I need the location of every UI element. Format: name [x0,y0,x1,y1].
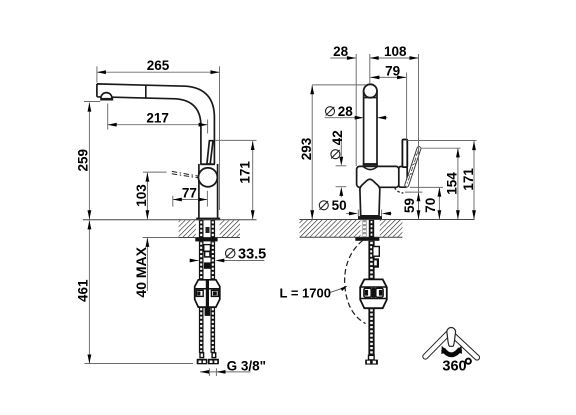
svg-text:40 MAX: 40 MAX [133,246,149,297]
right view: pull-out hose in counter [369,220,374,238]
svg-text:L = 1700: L = 1700 [280,285,331,300]
right view: tube end band [363,163,378,165]
right view: spout tube (front) [364,90,377,165]
dimension 59 [418,192,420,219]
dimension 171 right view [473,141,475,219]
right view: valve barrel body [357,166,399,187]
dimension 108 top [370,57,419,59]
360 icon: rotation arrow arc [443,349,460,355]
right view: hose end fitting [369,355,375,360]
svg-text:293: 293 [299,137,314,160]
countertop surface line (left view) [83,219,257,221]
right view: saddle curve [363,167,377,170]
dimension 103 [146,173,148,220]
left view: ball joint sphere [198,168,217,187]
360 icon: spray head knob [447,328,456,347]
right view: lever boss (vertical) [402,140,407,168]
dimension 293 [311,85,313,219]
dimension diameter 50 [346,213,351,215]
counter bottom extension line for 40 MAX [143,237,179,239]
right view: base plate (front) [358,216,382,219]
left view: faucet spout outline (side) [97,84,214,164]
right view: mounting nut under counter (front) [355,237,379,240]
svg-text:70: 70 [423,198,438,213]
svg-text:59: 59 [402,198,417,213]
right view: pull-out hose upper [368,241,374,279]
right view: lever phantom position (dashed) [404,146,421,187]
svg-text:79: 79 [385,63,400,78]
dimension 259 [88,103,90,220]
dimension diameter 28 [325,117,360,119]
countertop surface line (right view) [300,219,475,221]
right view: base column with dome top [360,179,380,216]
svg-text:28: 28 [338,104,354,119]
left view: pull-out hose dash-dot lines [172,171,199,176]
right view: tube chord line [364,97,377,99]
countertop hatched section (left view) [179,220,196,237]
dimension diameter 33.5 leader [222,260,264,262]
svg-text:360: 360 [442,359,466,375]
dimension 154 [457,148,459,219]
svg-text:103: 103 [134,184,149,207]
dimension 265 [97,71,220,73]
dimension 79 [370,76,406,78]
svg-text:108: 108 [384,44,407,59]
countertop hatched section (right view) [300,220,361,237]
left view: lever handle [207,141,213,164]
right view: lever swing arc dashed [395,187,404,193]
svg-text:171: 171 [461,168,476,191]
left view: supply hoses upper section [199,241,204,279]
L=1700 leader line and arrow [329,288,345,293]
svg-text:217: 217 [146,111,169,126]
svg-text:265: 265 [147,58,170,73]
svg-text:77: 77 [182,185,197,200]
left view: valve cap band [200,163,215,165]
diameter symbol 33.5 [226,249,235,258]
left view: pull-out head divider [145,85,147,98]
dimension 70 [438,188,440,220]
svg-text:28: 28 [333,44,349,59]
right view: threaded shank in counter (light) [363,220,366,237]
L=1700 hose path dashed curve [345,240,366,323]
left view: valve body cylinder sides [198,164,200,218]
svg-text:42: 42 [330,130,345,145]
svg-text:154: 154 [445,172,460,195]
360 icon: left arm (top view of spout) [422,327,455,360]
svg-text:461: 461 [76,279,91,302]
dimension 40 MAX [146,238,148,291]
dimension 217 [108,124,208,126]
svg-text:G 3/8": G 3/8" [227,359,266,374]
360 icon: right arm [450,332,481,361]
dimension diameter 42 (rotated) [340,132,342,162]
dimension 171 left view [252,141,254,219]
dimension 77 [173,199,208,201]
svg-text:50: 50 [332,198,347,213]
svg-text:259: 259 [76,149,91,172]
dimension 461 [88,220,90,363]
svg-text:171: 171 [238,161,253,184]
left view: base plate [196,218,220,221]
left view: aerator dome [101,93,112,98]
dimension G 3/8 leader [200,371,251,373]
right view: spout tip circle [364,84,377,97]
left view: mounting nut under counter [195,238,217,242]
right view: pull-out hose lower [368,308,374,355]
left view: threaded shank in counter [199,220,204,238]
left view: supply hoses lower section [199,307,204,353]
left view: hose end fittings [200,353,204,358]
left view: hose coupling block [195,280,220,307]
dimension 28 top [330,57,356,59]
right view: lever end cap [399,167,407,188]
svg-text:33.5: 33.5 [238,247,266,263]
right view: hose counterweight [360,279,387,308]
